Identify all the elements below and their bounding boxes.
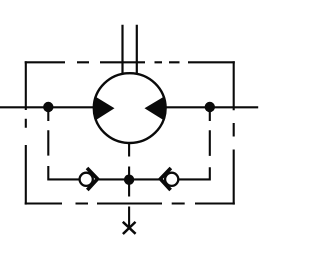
wire: main port line A (left segment)	[0, 106, 95, 108]
wire: right branch dashed rise to right node	[209, 111, 211, 156]
wire: center drain node to CV2	[131, 178, 161, 180]
enclosure dashed box bottom edge	[25, 202, 235, 204]
drain plug X symbol	[123, 222, 136, 234]
wire: CV2 to right branch lower corner	[178, 167, 210, 179]
check valve CV2 ball circle	[165, 173, 178, 186]
check valve CV1 seat chevron	[87, 168, 98, 190]
wire: motor case drain upper dash	[128, 143, 130, 157]
motor flow triangle left (points right)	[95, 96, 115, 120]
motor flow triangle right (points left)	[145, 96, 165, 120]
wire: twin drain lines at top	[123, 25, 137, 74]
junction dot: center drain node	[124, 175, 134, 185]
wire: main port line B (right segment)	[164, 106, 258, 108]
wire: left branch lower corner to check valve	[48, 166, 80, 179]
wire: motor case drain through node	[128, 167, 130, 197]
wire: CV1 to center drain node	[98, 178, 128, 180]
enclosure dashed box top edge	[25, 61, 235, 63]
enclosure dashed box left edge	[25, 61, 27, 204]
junction dot: right port node	[205, 102, 215, 112]
hydraulic motor M1 body circle	[94, 73, 166, 143]
check valve CV1 ball circle	[80, 173, 93, 186]
wire: drain stub below enclosure	[128, 207, 130, 228]
enclosure dashed box right edge	[233, 61, 235, 204]
wire: left branch dashed drop from left node	[47, 111, 49, 156]
check valve CV2 seat chevron	[160, 168, 171, 190]
junction dot: left port node	[43, 102, 53, 112]
